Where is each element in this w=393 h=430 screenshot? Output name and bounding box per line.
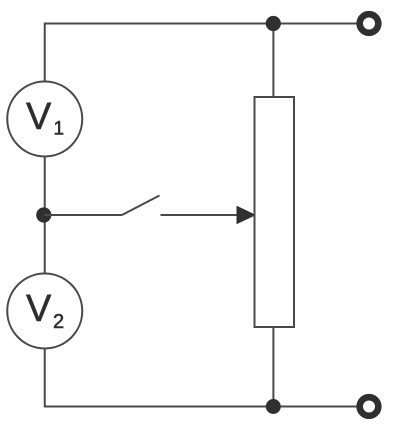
wire: V2 bottom, bottom-left corner, bottom horizontal to right terminal xyxy=(45,349,357,407)
voltage source V2 xyxy=(7,274,82,349)
switch S1 blade (open) xyxy=(122,196,160,216)
node A junction dot xyxy=(36,207,51,222)
svg-text:2: 2 xyxy=(53,311,64,333)
wire: switch contact with arrow toward resistor xyxy=(161,214,240,216)
voltage source V1 xyxy=(7,82,82,157)
wire: node A to V2 top xyxy=(44,215,46,274)
terminal bottom-right xyxy=(360,397,379,416)
svg-text:1: 1 xyxy=(54,119,65,140)
terminal top-right xyxy=(360,14,379,33)
svg-text:V: V xyxy=(26,96,52,138)
wire: top of resistor up to top wire xyxy=(272,24,274,98)
svg-text:V: V xyxy=(26,288,52,330)
wire: V1 bottom to node A xyxy=(44,157,46,216)
junction dot top node xyxy=(266,16,281,31)
wire: bottom of resistor down to bottom wire xyxy=(272,327,274,407)
wire: top horizontal from left corner to right terminal xyxy=(45,24,357,82)
arrowhead pointing at resistor R1 xyxy=(237,207,255,224)
junction dot bottom node xyxy=(266,399,281,414)
resistor R1 body xyxy=(255,97,295,327)
wire: node A to switch pole xyxy=(44,214,122,216)
